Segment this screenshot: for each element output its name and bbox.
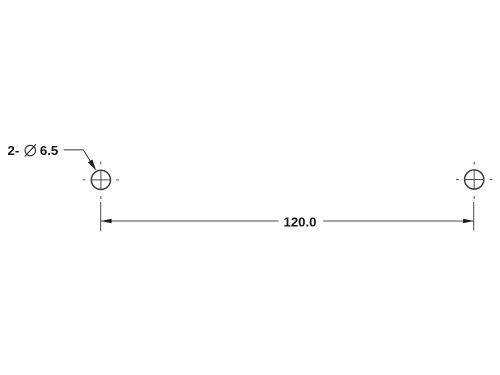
hole H1 centerline right dash: [116, 179, 119, 181]
hole H1 centerline vertical main: [100, 170, 102, 190]
hole H1 (left) circle: [91, 170, 110, 189]
leader diagonal segment: [83, 150, 91, 163]
diameter symbol circle: [25, 145, 35, 155]
diameter symbol slash: [25, 144, 36, 156]
svg-text:120.0: 120.0: [283, 215, 316, 230]
dimension arrowhead left: [101, 219, 112, 223]
hole H1 centerline horizontal main: [91, 179, 111, 181]
svg-text:6.5: 6.5: [40, 143, 58, 158]
hole H2 centerline right dash: [490, 179, 493, 181]
hole H2 centerline top dash: [473, 162, 475, 165]
dimension arrowhead right: [463, 219, 474, 223]
svg-text:2-: 2-: [8, 143, 20, 158]
hole H2 centerline bottom dash: [473, 196, 475, 199]
dimension line left segment: [101, 220, 278, 222]
extension line left: [100, 202, 102, 231]
hole H1 centerline bottom dash: [100, 196, 102, 199]
leader arrowhead: [88, 160, 96, 171]
hole H2 centerline left dash: [456, 179, 459, 181]
hole H2 centerline vertical main: [473, 170, 475, 190]
dimension line right segment: [323, 220, 473, 222]
hole H2 centerline horizontal main: [464, 179, 484, 181]
leader horizontal segment: [64, 149, 84, 151]
extension line right: [473, 202, 475, 231]
hole H2 (right) circle: [465, 170, 484, 189]
hole H1 centerline top dash: [100, 162, 102, 165]
hole H1 centerline left dash: [83, 179, 86, 181]
